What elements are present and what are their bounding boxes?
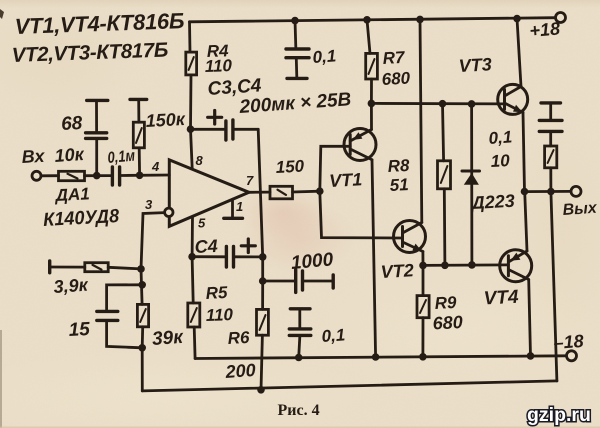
wire VT4 emitter up	[525, 192, 527, 252]
svg-text:15: 15	[68, 319, 91, 341]
node input 150k junction	[136, 172, 144, 180]
wire 1000 right lead	[304, 280, 332, 283]
wire VT1 emitter down to -18	[372, 160, 376, 357]
svg-text:ДА1: ДА1	[53, 184, 90, 205]
op-amp DA1 triangle	[169, 160, 249, 227]
wire R5 top	[192, 257, 193, 303]
wire 0,1 mid stem	[298, 310, 301, 327]
svg-text:0,1: 0,1	[312, 46, 337, 67]
wire to bottom rail corner	[141, 348, 144, 391]
wire right feedback column	[551, 192, 557, 381]
wire VT2 emitter	[421, 252, 424, 266]
node R6 bottom rail junction	[257, 386, 265, 394]
svg-text:VT3: VT3	[458, 54, 492, 76]
node wire-B VT2 emitter	[419, 262, 427, 270]
svg-text:R8: R8	[387, 156, 410, 176]
svg-text:0,1: 0,1	[488, 127, 513, 148]
capacitor C4	[225, 247, 228, 268]
svg-text:51: 51	[389, 175, 409, 195]
node wire-B diode bottom	[468, 261, 476, 269]
svg-text:VT2: VT2	[380, 260, 414, 282]
svg-text:+18: +18	[529, 18, 561, 41]
wire zobel stem 3	[549, 168, 552, 192]
svg-text:150к: 150к	[145, 109, 186, 131]
node rail R7	[363, 16, 371, 24]
svg-text:Рис. 4: Рис. 4	[278, 402, 320, 419]
wire pin1 stub	[231, 199, 234, 217]
node output VT3/VT4	[521, 188, 529, 196]
svg-text:3,9к: 3,9к	[53, 275, 89, 297]
open end bar 1000	[332, 275, 335, 288]
svg-text:С4: С4	[194, 236, 218, 257]
diode D223	[462, 170, 480, 173]
wire 68 to input	[95, 140, 98, 176]
wire top +18 rail	[190, 18, 556, 22]
open end T-bar 68	[87, 99, 108, 102]
wire 68 stem	[95, 102, 98, 132]
resistor R5	[188, 303, 200, 327]
wire R5 bottom to -18 rail	[193, 327, 197, 359]
svg-text:К140УД8: К140УД8	[43, 206, 120, 231]
node C4 right junction	[259, 253, 267, 261]
node wire-A R7/VT1	[368, 100, 376, 108]
wire R8 column	[443, 104, 444, 161]
svg-text:3: 3	[145, 197, 153, 212]
wire C4 right lead	[235, 255, 263, 258]
svg-text:10к: 10к	[54, 144, 85, 166]
capacitor 15	[97, 310, 118, 313]
resistor R9	[417, 296, 429, 318]
terminal +18	[556, 13, 566, 23]
resistor 150k	[133, 122, 144, 148]
wire 15 cap bottom branch	[107, 322, 143, 347]
wire op-amp pin8	[191, 129, 193, 168]
svg-text:7: 7	[246, 173, 254, 188]
resistor R8	[438, 161, 451, 189]
svg-text:5: 5	[198, 216, 206, 231]
wire rail to R7	[367, 20, 370, 54]
resistor 10 zobel	[545, 146, 557, 168]
svg-text:1: 1	[236, 199, 243, 214]
terminal pin 3 circle	[165, 208, 173, 216]
svg-text:gzip.ru: gzip.ru	[527, 404, 591, 426]
resistor 3,9k	[85, 263, 108, 272]
wire op-amp output	[249, 191, 270, 194]
wire R4 column from rail	[188, 22, 191, 52]
resistor 150	[270, 186, 293, 199]
node 1000 cap junction	[259, 277, 267, 285]
wire zobel stem 1	[549, 104, 552, 119]
wire B bus	[423, 263, 508, 266]
svg-text:Д223: Д223	[469, 191, 515, 213]
wire output	[525, 190, 572, 193]
wire VT1 base link	[320, 146, 350, 191]
node wire-B R8 bottom	[441, 262, 449, 270]
node rail VT3 collector	[513, 15, 521, 23]
transistor VT3	[498, 84, 528, 114]
open end T-bar 0,1 mid	[290, 307, 310, 310]
svg-text:–18: –18	[553, 331, 584, 353]
scan artifact top-left corner	[0, 9, 4, 19]
svg-text:Вх: Вх	[21, 146, 46, 167]
wire R9 top	[422, 265, 425, 295]
open end T-bar 0,1 top	[287, 77, 307, 80]
wire bottom feedback rail	[142, 381, 557, 391]
wire -18 rail	[195, 356, 566, 359]
svg-text:150: 150	[275, 157, 305, 177]
wire 0,1 mid bottom	[299, 337, 300, 358]
wire R7 to wire-A	[370, 79, 373, 103]
wire 3,9k right lead	[108, 267, 141, 269]
wire VT2 collector column	[420, 19, 422, 222]
capacitor 68	[86, 131, 107, 134]
svg-text:Вых: Вых	[562, 200, 598, 219]
open end bar 3,9k	[48, 261, 51, 273]
resistor 10k	[59, 171, 85, 180]
resistor R4	[186, 52, 197, 75]
wire VT1 collector up	[370, 103, 373, 129]
svg-text:VT4: VT4	[483, 287, 519, 310]
svg-text:R7: R7	[382, 48, 406, 68]
wire 39k bottom	[141, 327, 144, 348]
svg-text:8: 8	[196, 153, 204, 168]
node 3.9k junction	[137, 265, 145, 273]
terminal -18	[567, 351, 577, 361]
svg-text:R5: R5	[205, 283, 228, 303]
wire pin5	[191, 217, 194, 257]
transistor VT4	[500, 250, 532, 282]
resistor 39k	[137, 304, 148, 326]
wire VT4 collector down	[529, 280, 531, 356]
svg-text:680: 680	[381, 69, 411, 89]
wire R4 to C3 node	[189, 75, 192, 129]
wire pin 3	[141, 213, 165, 269]
open end T-bar pin1	[224, 217, 243, 220]
node input 68 junction	[93, 172, 101, 180]
capacitor 0,1m	[111, 167, 114, 185]
svg-text:VT1: VT1	[329, 169, 363, 191]
transistor VT1	[344, 129, 376, 161]
node C4 junction	[188, 253, 196, 261]
wire 0,1 top stem	[294, 20, 298, 47]
wire 3,9k left lead	[50, 266, 85, 269]
node VT1 base junction	[316, 187, 324, 195]
wire R9 bottom	[421, 318, 424, 357]
wire C3 right lead	[235, 128, 259, 131]
node 15 cap top junction	[138, 281, 146, 289]
wire VT3 emitter down	[523, 113, 525, 192]
wire 15 cap top branch	[107, 285, 143, 310]
wire 10k to node	[85, 174, 111, 177]
node output zobel	[547, 188, 555, 196]
node wire-A diode top	[468, 100, 476, 108]
node rail VT2 collector	[416, 16, 424, 24]
wire zobel stem 2	[549, 133, 552, 146]
wire diode column	[470, 104, 473, 265]
wire C3 left lead	[191, 128, 225, 131]
open end T-bar 150k	[130, 98, 147, 101]
wire input lead	[41, 174, 59, 177]
wire VT2 base link	[320, 191, 403, 238]
capacitor 0,1 mid	[289, 327, 311, 330]
transistor VT2	[394, 221, 426, 253]
svg-text:10: 10	[490, 151, 510, 171]
open end T-bar zobel top	[541, 101, 561, 104]
node rail 0,1 cap	[291, 17, 299, 25]
wire 39k column top	[141, 269, 142, 305]
terminal output	[571, 186, 581, 196]
svg-text:R6: R6	[227, 328, 250, 348]
node 15 cap bottom junction	[138, 344, 146, 352]
wire R8 bottom	[443, 189, 446, 265]
node C3/R4 junction	[187, 125, 195, 133]
wire 0,1 bottom stem	[295, 59, 298, 77]
svg-text:680: 680	[432, 312, 463, 334]
label + C4	[241, 239, 255, 253]
svg-text:39к: 39к	[151, 327, 185, 350]
svg-text:68: 68	[61, 113, 84, 135]
capacitor 0,1 top	[286, 47, 309, 50]
capacitor C3	[224, 121, 227, 140]
svg-text:4: 4	[151, 159, 160, 174]
svg-text:110: 110	[204, 56, 232, 76]
wire R6 bottom to bottom rail	[261, 335, 262, 390]
capacitor 0,1 zobel	[539, 119, 562, 122]
wire VT3 collector	[517, 19, 521, 87]
wire 1000 left lead	[263, 280, 294, 283]
wire C3C4 column	[258, 129, 263, 309]
svg-text:R9: R9	[434, 293, 457, 313]
resistor R7	[366, 53, 378, 79]
wire A bias bus	[371, 102, 504, 105]
terminal Bx input	[32, 171, 41, 180]
svg-text:0,1м: 0,1м	[107, 148, 136, 167]
wire 150k to input	[138, 148, 141, 176]
node VT4 -18 rail	[527, 352, 535, 360]
wire 150 to VT1 base node	[293, 190, 320, 194]
resistor R6	[257, 309, 269, 335]
label + C3	[208, 111, 222, 125]
node R9 -18 rail	[419, 353, 427, 361]
wire 150k stem	[137, 100, 140, 122]
wire to op-amp input	[121, 174, 169, 177]
svg-text:0,1: 0,1	[321, 325, 346, 346]
node wire-A R8 top	[439, 100, 447, 108]
node 0,1 -18 rail junction	[295, 354, 303, 362]
svg-text:1000: 1000	[290, 249, 334, 274]
svg-text:200: 200	[224, 360, 256, 382]
capacitor 1000	[294, 270, 297, 293]
wire C4 left lead	[192, 255, 225, 258]
svg-text:110: 110	[205, 305, 233, 325]
node VT1 emitter -18 rail	[372, 353, 380, 361]
